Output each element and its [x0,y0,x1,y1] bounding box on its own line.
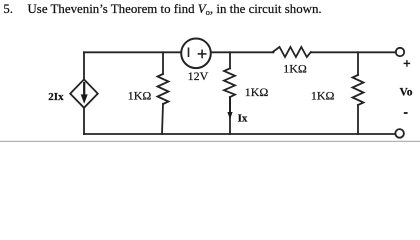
svg-text:5.: 5. [3,2,13,16]
svg-text:Vo: Vo [400,87,413,99]
svg-text:Use Thevenin’s Theorem to find: Use Thevenin’s Theorem to find Vo, in th… [28,2,322,17]
svg-text:2Ix: 2Ix [48,91,64,103]
svg-text:1KΩ: 1KΩ [311,89,335,103]
svg-text:1KΩ: 1KΩ [128,88,152,102]
svg-text:Ix: Ix [238,113,248,125]
svg-text:1KΩ: 1KΩ [283,62,307,76]
svg-text:1KΩ: 1KΩ [245,85,269,99]
svg-text:12V: 12V [188,69,209,83]
